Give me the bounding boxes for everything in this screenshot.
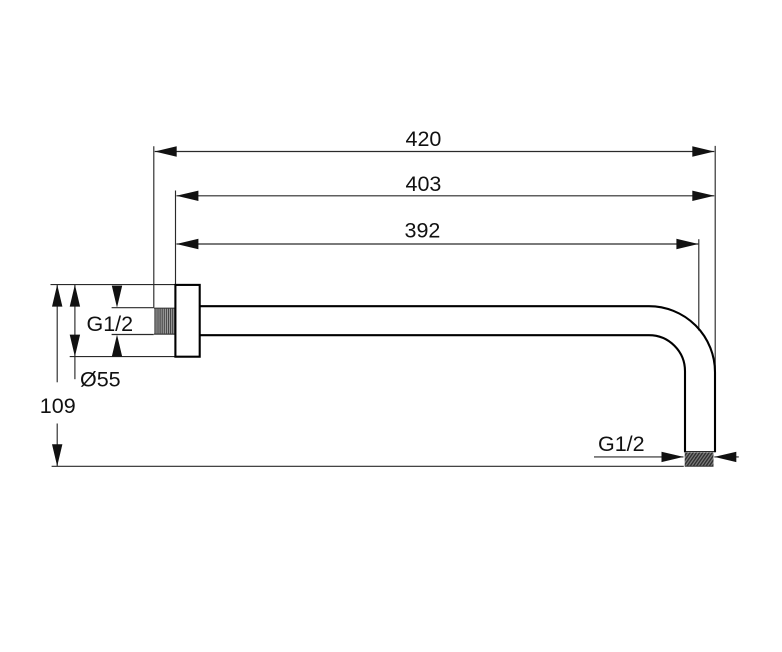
- extension line at arm outer end (420/403): [714, 146, 716, 379]
- extension line wall-thread bottom: [112, 334, 154, 336]
- svg-text:G1/2: G1/2: [87, 312, 134, 336]
- arrow 109 down: [52, 444, 62, 466]
- outlet thread top line: [684, 451, 715, 453]
- extension line flange top: [51, 284, 177, 286]
- dimension line 420: [155, 151, 715, 153]
- dimension line 109 lower segment: [56, 424, 58, 467]
- arrow G1/2 outlet pointing right: [662, 452, 684, 462]
- shower arm tube outer edge: [200, 306, 715, 452]
- arrow 420 right: [692, 146, 714, 156]
- dimension line 109 upper segment: [56, 285, 58, 383]
- dimension line 392: [176, 243, 698, 245]
- svg-text:Ø55: Ø55: [80, 367, 121, 391]
- svg-text:G1/2: G1/2: [598, 432, 645, 456]
- extension line flange bottom: [70, 356, 175, 358]
- svg-text:392: 392: [405, 219, 441, 243]
- dimension line 403: [176, 195, 714, 197]
- extension line at drop-tube centre (392): [698, 239, 700, 330]
- arrow 392 right: [676, 239, 698, 249]
- arrow 420 left: [155, 146, 177, 156]
- arrow dia55 down: [70, 335, 80, 357]
- leader line G1/2 outlet right: [714, 456, 739, 458]
- arrow 392 left: [176, 239, 198, 249]
- arrow 403 right: [692, 191, 714, 201]
- svg-text:109: 109: [40, 394, 76, 418]
- wall flange: [175, 285, 199, 357]
- arrow 403 left: [176, 191, 198, 201]
- extension line at flange face (403/392): [175, 191, 177, 285]
- wall thread (hatched): [154, 308, 175, 334]
- outlet thread (hatched): [685, 452, 714, 466]
- extension line at wall thread left (420): [153, 146, 155, 308]
- arrow 109 up: [52, 285, 62, 307]
- dimension line diameter 55: [74, 285, 76, 380]
- svg-text:403: 403: [406, 172, 442, 196]
- arrow G1/2 wall down: [112, 286, 122, 308]
- shower arm tube inner edge: [200, 335, 685, 452]
- arrow G1/2 outlet pointing left: [714, 452, 736, 462]
- extension line wall-thread top: [112, 307, 154, 309]
- arrow G1/2 wall up: [112, 335, 122, 357]
- leader line G1/2 outlet left: [594, 456, 684, 458]
- baseline 109 reference: [52, 465, 684, 467]
- arrow dia55 up: [70, 285, 80, 307]
- svg-text:420: 420: [406, 127, 442, 151]
